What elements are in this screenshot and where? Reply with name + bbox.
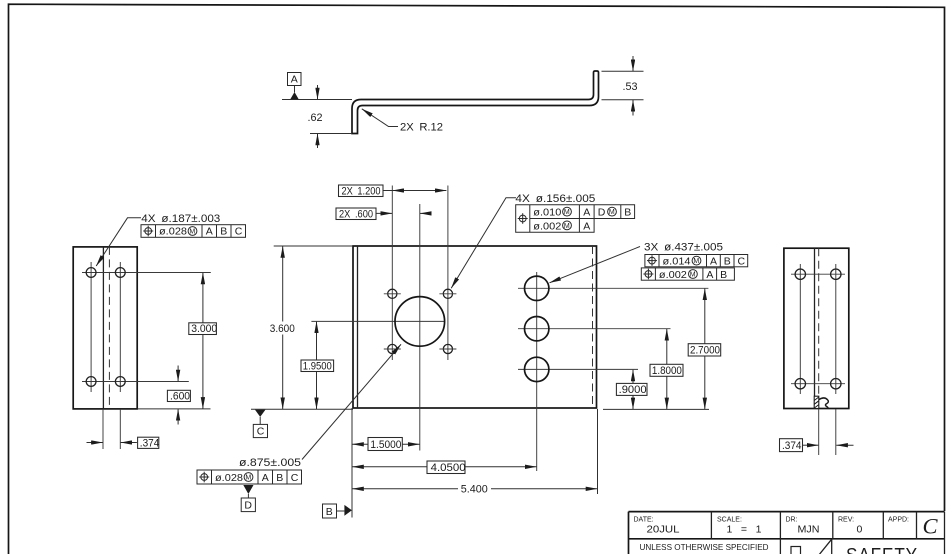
svg-text:REV:: REV: (838, 516, 854, 523)
vertical centerlines (391, 186, 393, 361)
plate outline (73, 247, 137, 409)
svg-text:ø.014: ø.014 (663, 257, 691, 268)
leader 2X R.12 (362, 109, 443, 134)
4 holes ø.187 (86, 268, 96, 278)
svg-text:3.600: 3.600 (270, 323, 295, 335)
flange edge line (814, 248, 816, 396)
datum D flag (241, 485, 255, 512)
svg-text:M: M (245, 475, 251, 482)
dimension .374 (780, 439, 854, 452)
third angle projection symbol (partial) (791, 547, 801, 554)
dimension 1.8000 (650, 329, 683, 409)
dimension .62 (308, 85, 353, 148)
horizontal centerlines (311, 320, 444, 322)
plate outline (353, 246, 597, 408)
svg-text:1.5000: 1.5000 (370, 439, 401, 451)
svg-text:M: M (564, 209, 570, 216)
svg-text:M: M (564, 223, 570, 230)
svg-text:C: C (291, 472, 299, 484)
svg-text:M: M (609, 209, 615, 216)
flange section hatch (814, 396, 828, 408)
svg-text:B: B (220, 226, 227, 238)
svg-text:MJN: MJN (798, 524, 820, 536)
svg-text:C: C (257, 426, 265, 438)
svg-text:A: A (710, 256, 717, 268)
svg-text:B: B (724, 256, 731, 268)
datum C flag (253, 410, 267, 438)
svg-text:A: A (291, 74, 298, 86)
left bend tangent line (357, 246, 359, 408)
leader 4X ø.156±.005 (451, 193, 595, 288)
dimension .53 (602, 56, 644, 116)
svg-text:M: M (693, 258, 699, 265)
feature control frame ø.014 (3 holes) (645, 255, 748, 268)
dimension 2.7000 (688, 289, 721, 410)
dimension .374 (87, 437, 160, 449)
PROFILE VIEW (282, 56, 644, 148)
datum B flag (323, 504, 352, 518)
svg-text:B: B (276, 472, 283, 484)
center hole ø.875 (395, 297, 445, 347)
dimension 4.0500 (352, 461, 536, 474)
svg-text:.53: .53 (623, 81, 638, 93)
MAIN VIEW (197, 185, 748, 518)
svg-text:1.9500: 1.9500 (303, 360, 332, 372)
dimension .600 (167, 366, 190, 425)
svg-text:M: M (189, 229, 195, 236)
svg-text:.374: .374 (140, 437, 160, 449)
dimension 3.600 (269, 246, 298, 409)
svg-text:3.000: 3.000 (191, 323, 217, 335)
feature control frame ø.028 (center hole) (197, 470, 302, 484)
leader ø.875±.005 (239, 344, 401, 469)
feature control frame ø.028 (141, 225, 246, 238)
svg-text:ø.028: ø.028 (215, 473, 243, 484)
svg-text:3X ø.437±.005: 3X ø.437±.005 (644, 241, 723, 253)
4 holes (795, 269, 805, 279)
bottom edge extension right (603, 408, 709, 410)
svg-text:20JUL: 20JUL (647, 524, 680, 536)
svg-text:.62: .62 (308, 112, 323, 124)
svg-text:A: A (706, 269, 713, 281)
svg-text:ø.002: ø.002 (533, 221, 561, 232)
svg-text:.600: .600 (170, 390, 190, 402)
bottom edge extension to datum C (251, 408, 353, 410)
leader 4X ø.187±.003 (96, 218, 141, 266)
dimension 2X 1.200 (339, 185, 447, 197)
dimension 3.000 (189, 273, 217, 409)
svg-text:ø.875±.005: ø.875±.005 (239, 457, 301, 469)
bent sheet outline (352, 71, 599, 134)
svg-text:B: B (720, 269, 727, 281)
bottom edge extension (137, 408, 210, 410)
svg-text:DATE:: DATE: (634, 516, 654, 523)
datum A flag (288, 73, 302, 100)
svg-text:ø.028: ø.028 (159, 227, 187, 238)
4 holes ø.156 (388, 289, 453, 353)
title block (629, 512, 945, 554)
feature control frame ø.002 (3 holes) (641, 268, 734, 281)
leader 3X ø.437±.005 (550, 241, 724, 282)
LEFT VIEW (73, 213, 245, 449)
svg-text:2X .600: 2X .600 (339, 208, 373, 220)
svg-text:4X ø.187±.003: 4X ø.187±.003 (141, 213, 220, 225)
dimension .9000 (616, 370, 647, 410)
RIGHT VIEW (780, 248, 854, 455)
svg-text:DR:: DR: (786, 516, 798, 523)
plate outline (784, 248, 849, 408)
svg-text:B: B (326, 506, 333, 518)
svg-text:A: A (583, 220, 590, 232)
svg-text:A: A (206, 226, 213, 238)
svg-text:D: D (244, 500, 252, 512)
svg-text:UNLESS OTHERWISE SPECIFIED: UNLESS OTHERWISE SPECIFIED (640, 542, 769, 552)
svg-text:ø.010: ø.010 (533, 208, 561, 219)
hole column centerlines (799, 264, 801, 394)
dimension 2X .600 (336, 208, 431, 220)
svg-text:.374: .374 (782, 440, 802, 452)
svg-text:ø.002: ø.002 (659, 270, 687, 281)
svg-text:B: B (624, 207, 631, 219)
bend line (hidden) (108, 247, 110, 409)
svg-text:1.8000: 1.8000 (652, 365, 682, 377)
flange edge line (102, 247, 104, 409)
hole column centerlines (90, 262, 92, 392)
svg-text:5.400: 5.400 (461, 484, 488, 496)
datum A extension line (282, 99, 352, 101)
svg-text:0: 0 (857, 524, 863, 536)
svg-text:2X R.12: 2X R.12 (400, 122, 443, 134)
dimension 5.400 (352, 482, 597, 496)
svg-text:SCALE:: SCALE: (717, 516, 742, 523)
svg-text:.9000: .9000 (619, 384, 647, 396)
svg-text:D: D (598, 207, 606, 219)
svg-text:APPD:: APPD: (888, 516, 909, 523)
svg-text:4.0500: 4.0500 (431, 462, 466, 474)
svg-text:A: A (583, 207, 590, 219)
svg-text:1 = 1: 1 = 1 (727, 524, 762, 536)
svg-text:2.7000: 2.7000 (690, 345, 720, 357)
top extension lines (274, 245, 353, 247)
dimension 1.9500 (301, 322, 334, 410)
feature control frame ø.010 / ø.002 (4 holes) (516, 205, 635, 233)
svg-text:SAFETY: SAFETY (846, 545, 918, 554)
hole row centerlines (82, 272, 211, 274)
svg-text:2X 1.200: 2X 1.200 (342, 185, 381, 197)
dimension 1.5000 (352, 438, 419, 451)
extension lines below plate (351, 408, 353, 518)
bend line (hidden) (818, 248, 820, 396)
svg-text:M: M (690, 272, 696, 279)
hole row centerlines (791, 273, 845, 275)
svg-text:C: C (923, 514, 939, 539)
small hole crosshair ticks (384, 294, 457, 349)
svg-text:C: C (738, 256, 746, 268)
svg-text:C: C (235, 226, 243, 238)
svg-text:A: A (262, 472, 269, 484)
3 holes ø.437 (525, 276, 549, 382)
right bend line (hidden) (592, 246, 594, 408)
svg-text:4X ø.156±.005: 4X ø.156±.005 (515, 193, 595, 205)
